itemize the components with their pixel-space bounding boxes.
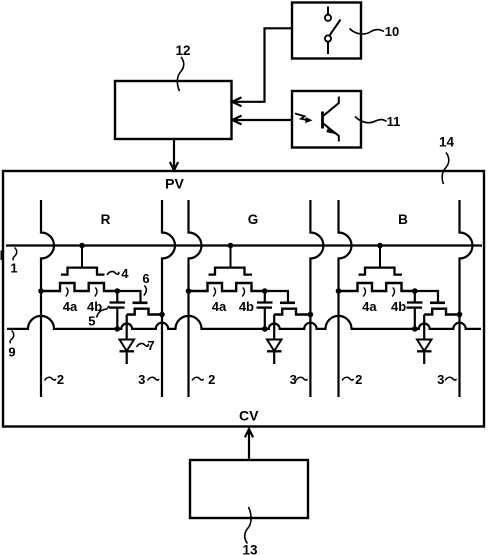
leader tilde for label 2 (R) (45, 377, 56, 380)
junction on line 1 (G cell) (228, 243, 234, 249)
wire: column line 2 (R cell), vertical x=41 (41, 200, 54, 397)
junction of capacitor with row line 9 (R) (115, 326, 121, 332)
junction: storage node dot (B) (412, 288, 418, 294)
panel box 14 (3, 171, 484, 427)
switch top lead (327, 7, 329, 15)
arrowhead into box 12 (lower) (232, 116, 241, 125)
diode 7 triangle (B) (417, 340, 432, 352)
transistor channels 4a and 4b (G) (189, 283, 265, 291)
svg-text:4b: 4b (239, 299, 254, 314)
junction of channel line with column line 2 (R) (38, 288, 44, 294)
arrowhead into box 12 (upper) (232, 97, 241, 106)
capacitor 5 top plate (B) (407, 301, 423, 303)
svg-text:CV: CV (239, 408, 259, 424)
capacitor 5 top lead (G) (264, 291, 266, 303)
leader tilde for label 3 (B) (445, 377, 456, 380)
svg-text:2: 2 (208, 372, 215, 387)
svg-text:3: 3 (437, 372, 444, 387)
transistor 4 gate electrode (B) (359, 268, 403, 275)
leader tilde for label 7 (137, 343, 149, 347)
transistor 6 gate electrode (G) (280, 301, 295, 304)
diode 7 cathode lead (B) (423, 351, 425, 364)
transistor 6 channel (B) (424, 309, 459, 315)
leader tilde for label 4 (107, 271, 119, 275)
transistor channels 4a and 4b (B) (339, 283, 415, 291)
leader squiggle for 4a (B) (363, 288, 365, 297)
svg-text:4a: 4a (212, 299, 227, 314)
box 11 (photo-detector unit) (292, 91, 361, 148)
junction of channel line with column line 2 (B) (336, 288, 342, 294)
capacitor 5 top lead (R) (116, 291, 118, 303)
wire: column line 3 (B cell), vertical x=459.5 (460, 200, 473, 397)
switch bottom lead (327, 42, 329, 54)
junction of transistor 6 with column line 3 (G) (308, 312, 314, 318)
box 12 (control circuit) (115, 81, 232, 139)
leader squiggle for 4b (R) (95, 288, 97, 297)
capacitor 5 bottom plate (B) (407, 306, 423, 308)
junction on line 1 (B cell) (377, 243, 383, 249)
leader squiggle for label 6 (144, 286, 147, 296)
leader tilde for label 2 (G) (192, 377, 203, 380)
svg-text:6: 6 (142, 271, 149, 286)
switch blade (330, 20, 341, 36)
diode 7 cathode bar (G) (267, 350, 282, 352)
wire from box 10 to box 12 (233, 28, 292, 102)
transistor 4 gate electrode (G) (209, 268, 253, 275)
svg-text:2: 2 (57, 372, 64, 387)
wire: storage node to gate of transistor 6 (B) (415, 291, 438, 302)
svg-text:10: 10 (385, 24, 399, 39)
svg-text:4b: 4b (391, 299, 406, 314)
transistor 6 channel (R) (127, 309, 162, 315)
svg-text:3: 3 (290, 372, 297, 387)
light input arrow (295, 114, 307, 120)
leader squiggle for 4b (B) (392, 288, 394, 297)
svg-text:4a: 4a (362, 299, 377, 314)
switch top contact circle (325, 15, 331, 21)
leader squiggle to label 10 (350, 29, 385, 35)
diode 7 anode lead (G) (273, 315, 275, 340)
diode 7 triangle (G) (267, 340, 282, 352)
wire: column line 3 (G cell), vertical x=310.4 (310, 200, 323, 397)
arrow from box 13 up to CV (248, 429, 250, 460)
arrow from box 12 down to panel (173, 139, 175, 170)
svg-text:4: 4 (121, 266, 129, 281)
wire: storage node to gate of transistor 6 (G) (265, 291, 288, 302)
capacitor 5 top plate (R) (110, 301, 126, 303)
transistor channels 4a and 4b (R) (41, 283, 117, 291)
capacitor 5 bottom plate (G) (257, 306, 273, 308)
svg-text:11: 11 (387, 114, 401, 129)
leader squiggle to label 12 (177, 57, 183, 91)
wire: column line 2 (B cell), vertical x=338.5 (339, 200, 352, 397)
diode 7 cathode bar (R) (120, 350, 135, 352)
svg-text:B: B (398, 212, 408, 227)
switch bottom contact circle (325, 35, 331, 41)
wire from box 11 to box 12 (233, 119, 292, 121)
leader tilde for label 3 (G) (296, 377, 307, 380)
diode 7 anode lead (R) (126, 315, 128, 340)
capacitor 5 top plate (G) (257, 301, 273, 303)
transistor 6 gate electrode (R) (133, 301, 148, 304)
box 13 (CV drive circuit) (190, 460, 308, 518)
svg-text:1: 1 (10, 261, 17, 276)
junction of channel line with column line 2 (G) (186, 288, 192, 294)
svg-text:5: 5 (88, 314, 95, 329)
junction of capacitor with row line 9 (B) (412, 326, 418, 332)
row line 1 (horizontal bus) (6, 244, 482, 246)
leader squiggle for label 1 (13, 248, 17, 261)
svg-text:13: 13 (242, 543, 258, 555)
junction: storage node dot (G) (262, 288, 268, 294)
phototransistor base bar (321, 112, 324, 129)
wire: storage node to gate of transistor 6 (R) (117, 291, 140, 302)
capacitor 5 top lead (B) (414, 291, 416, 303)
junction: storage node dot (R) (115, 288, 121, 294)
diode 7 cathode bar (B) (417, 350, 432, 352)
transistor 4 gate electrode (R) (61, 268, 105, 275)
wire: column line 3 (R cell), vertical x=162 (162, 200, 175, 397)
ink mark on left panel edge (1, 251, 4, 261)
leader tilde for label 2 (B) (342, 377, 353, 380)
svg-text:3: 3 (138, 372, 145, 387)
svg-text:R: R (101, 212, 111, 227)
wire: column line 2 (G cell), vertical x=188.5 (189, 200, 202, 397)
capacitor 5 bottom lead (G) (264, 308, 266, 329)
leader tilde for label 3 (R) (148, 377, 159, 380)
leader squiggle for 4a (G) (213, 288, 215, 297)
phototransistor emitter with arrowhead (323, 123, 339, 142)
wire: gate lead of transistor 4 (G) (230, 246, 232, 269)
capacitor 5 bottom lead (R) (116, 308, 118, 329)
junction of transistor 6 with column line 3 (R) (159, 312, 165, 318)
phototransistor collector (323, 97, 339, 117)
wire: gate lead of transistor 4 (B) (379, 246, 381, 269)
diode 7 triangle (R) (120, 340, 135, 352)
svg-text:14: 14 (439, 135, 455, 150)
transistor 6 gate electrode (B) (430, 301, 445, 304)
svg-text:4a: 4a (63, 299, 78, 314)
svg-text:12: 12 (175, 43, 190, 58)
row line 9 (horizontal bus with hops) (7, 316, 481, 329)
wire: gate lead of transistor 4 (R) (81, 246, 83, 269)
box 10 (switch unit) (292, 3, 361, 59)
svg-text:PV: PV (165, 176, 184, 192)
leader squiggle for 4a (R) (66, 288, 68, 297)
svg-text:G: G (248, 212, 259, 227)
leader squiggle for 4b (G) (242, 288, 244, 297)
junction of transistor 6 with column line 3 (B) (457, 312, 463, 318)
leader squiggle for label 5 (97, 306, 109, 318)
junction on line 1 (R cell) (79, 243, 85, 249)
capacitor 5 bottom lead (B) (414, 308, 416, 329)
svg-text:9: 9 (8, 345, 15, 360)
diode 7 cathode lead (G) (273, 351, 275, 364)
capacitor 5 bottom plate (R) (109, 306, 125, 308)
diode 7 cathode lead (R) (126, 351, 128, 364)
leader squiggle to label 13 (245, 507, 251, 544)
svg-text:7: 7 (147, 338, 154, 353)
transistor 6 channel (G) (274, 309, 310, 315)
leader squiggle to label 14 (442, 153, 449, 185)
svg-text:2: 2 (355, 372, 362, 387)
diode 7 anode lead (B) (423, 315, 425, 340)
leader squiggle to label 11 (355, 117, 387, 123)
leader squiggle for label 9 (10, 331, 14, 344)
junction of capacitor with row line 9 (G) (262, 326, 268, 332)
